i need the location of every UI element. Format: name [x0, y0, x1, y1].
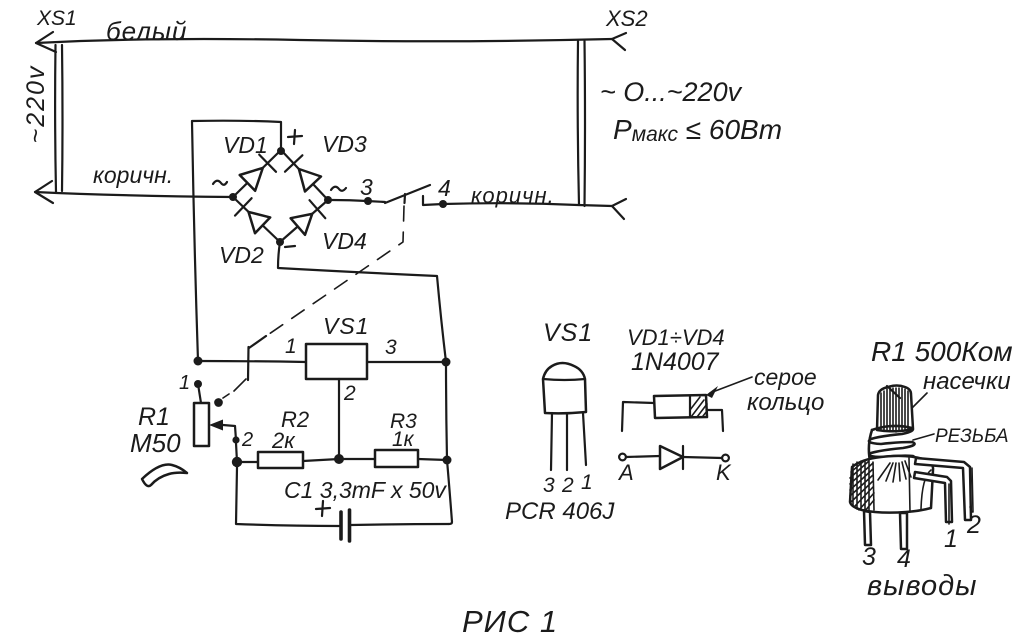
svg-text:VD2: VD2: [219, 242, 264, 268]
svg-text:кольцо: кольцо: [747, 389, 824, 416]
mechanical link end circle at R1: [215, 399, 222, 406]
diode symbol A-K: [619, 454, 626, 461]
leader 1 to leg: [948, 484, 950, 524]
node right junction: [443, 456, 452, 465]
svg-text:R1: R1: [138, 403, 170, 431]
wire right AC to contact 3: [332, 200, 385, 202]
capacitor C1 plate left: [339, 512, 343, 539]
VS1 leg 1: [583, 413, 586, 465]
body front facet fan shading: [878, 461, 911, 482]
R1 leg down left (pin 3): [864, 511, 871, 545]
wire bridge bottom loop (- to right vertical): [278, 242, 446, 362]
svg-text:C1 3,3mF x 50v: C1 3,3mF x 50v: [284, 477, 447, 503]
svg-text:2: 2: [561, 474, 574, 497]
wire VS1 pin 1: [198, 361, 306, 362]
wire junction to R2: [241, 461, 258, 463]
connector XS1 (double vertical bar): [54, 45, 57, 192]
VS1 leg 3: [551, 413, 552, 470]
body facet lines: [873, 458, 931, 512]
wire wiper to junction: [236, 443, 237, 462]
fork right end of white wire: [612, 33, 626, 50]
resistor R3: [375, 450, 418, 467]
wire bridge top loop (+ to left vertical): [192, 121, 281, 361]
arrowhead left end of brown wire: [35, 181, 53, 203]
node R1 wiper pin 2: [232, 436, 239, 443]
svg-text:2: 2: [966, 511, 981, 539]
potentiometer R1 (symbol): [179, 372, 253, 462]
svg-text:1: 1: [581, 471, 593, 494]
R1 leg to right lower (pin 1): [914, 472, 952, 522]
diode VD3 (bridge top-right edge): [281, 150, 328, 200]
mechanical link blade stroke at R1: [249, 336, 266, 348]
svg-text:PCR 406Ј: PCR 406Ј: [505, 498, 615, 525]
wire center junction to R3: [344, 458, 375, 460]
thread left dark edge: [869, 430, 872, 461]
label ~ right AC: [331, 187, 346, 191]
svg-text:3: 3: [543, 474, 555, 497]
node center junction (gate node): [334, 454, 344, 464]
svg-text:3: 3: [862, 543, 876, 571]
R1 leg to right upper (pin 2): [915, 458, 971, 520]
wire right vertical (pin3 node down to bottom): [446, 362, 452, 524]
diode gray ring (hatched band): [690, 396, 707, 417]
leader 2 to leg: [972, 468, 973, 512]
lead right with bend: [707, 410, 723, 431]
wire VS1 pin 3: [367, 361, 446, 363]
resistor body R1: [194, 403, 209, 446]
fork right end of right brown wire: [612, 199, 626, 219]
capacitor C1 plate right: [348, 510, 352, 541]
svg-text:серое: серое: [754, 364, 817, 390]
label ~ left AC: [213, 181, 227, 185]
node VS1 pin1 junction on left vertical: [194, 357, 203, 366]
svg-text:VS1: VS1: [323, 313, 369, 339]
svg-text:2: 2: [241, 429, 253, 451]
shaft slot: [887, 386, 900, 398]
svg-text:коричн.: коричн.: [471, 183, 555, 208]
svg-text:насечки: насечки: [923, 368, 1011, 395]
arrowhead left end of white wire: [36, 32, 56, 52]
svg-text:1: 1: [944, 525, 958, 553]
svg-text:1N4007: 1N4007: [631, 348, 720, 376]
leader 2 to leg: [970, 507, 972, 512]
thyristor VS1 package drawing (TO-92): [505, 319, 615, 525]
leader arrow to gray ring: [710, 377, 752, 393]
wire белый (top mains wire XS1 to XS2): [36, 39, 612, 43]
rotation arc arrow below R1: [142, 465, 187, 487]
wire VS1 pin 2 (gate) down to R2/R3 junction: [338, 379, 340, 459]
svg-text:3: 3: [360, 174, 373, 200]
VS1 package body: [543, 363, 586, 413]
svg-text:РЕЗЬБА: РЕЗЬБА: [935, 426, 1009, 447]
svg-text:M50: M50: [130, 428, 181, 458]
svg-text:4: 4: [438, 175, 451, 201]
diode VD1 (bridge top-left edge): [233, 150, 281, 197]
label + polarity: [288, 130, 302, 144]
node bridge right (~): [324, 196, 332, 204]
lead left with bend: [622, 402, 654, 431]
leader РЕЗЬБА to thread: [913, 434, 934, 440]
wire bottom left (junction down and along bottom to C1): [236, 467, 339, 526]
node contact 3: [364, 197, 372, 205]
wire коричн. (left brown wire to bridge): [35, 192, 233, 197]
thyristor VS1 (box): [306, 344, 367, 379]
svg-text:РИС 1: РИС 1: [462, 604, 558, 639]
wire R3 to right junction: [418, 459, 447, 460]
svg-text:VD4: VD4: [322, 228, 367, 254]
switch SA pivot tick: [403, 194, 406, 203]
VS1 leg 2: [566, 414, 568, 470]
node bridge top (+): [277, 147, 285, 155]
node junction R1/R2/C1: [232, 457, 242, 467]
wire R2 to center junction: [303, 459, 339, 461]
svg-text:2: 2: [343, 382, 356, 405]
svg-text:коричн.: коричн.: [93, 162, 173, 188]
connector XS2 (double vertical bar): [578, 41, 579, 205]
potentiometer R1 physical drawing: [850, 336, 1013, 602]
svg-text:~220v: ~220v: [22, 65, 50, 144]
svg-text:A: A: [617, 460, 634, 485]
svg-text:K: K: [716, 460, 732, 485]
svg-text:VS1: VS1: [543, 319, 593, 347]
diode VD1-VD4 package drawing (1N4007): [617, 325, 824, 485]
svg-text:белый: белый: [106, 16, 187, 46]
switch SA contact 4: [423, 196, 443, 205]
svg-text:1: 1: [179, 372, 190, 394]
node VS1 pin3 junction on right vertical: [442, 358, 451, 367]
mechanical link tick crossing gate wire: [247, 347, 250, 380]
svg-text:2к: 2к: [271, 428, 296, 453]
label - polarity: [285, 246, 295, 247]
svg-text:XS2: XS2: [605, 6, 648, 31]
R1 shaft (knurled cylinder): [877, 386, 913, 432]
svg-text:VD1÷VD4: VD1÷VD4: [627, 325, 725, 350]
svg-text:VD1: VD1: [223, 132, 268, 158]
dashed mechanical link from switch to R1 shaft: [256, 206, 404, 343]
wire коричн. (right brown wire from contact 4 to XS2): [443, 203, 612, 206]
svg-text:~ O...~220v: ~ O...~220v: [600, 77, 743, 107]
diode body rectangle: [654, 395, 707, 418]
R1 threaded bushing: [869, 426, 915, 462]
svg-text:1к: 1к: [392, 428, 415, 451]
shaft knurl hatch: [881, 388, 908, 432]
node contact 4: [439, 200, 447, 208]
svg-text:4: 4: [897, 545, 911, 573]
mechanical link dashes to R1 shaft: [223, 379, 246, 398]
node bridge left (~): [229, 193, 237, 201]
R1 wiper arrow: [209, 420, 223, 431]
leader насечки to shaft: [908, 393, 927, 412]
R1 body (hex housing): [850, 456, 933, 513]
svg-text:VD3: VD3: [322, 131, 367, 157]
body left facet crosshatch: [850, 459, 874, 511]
wire R1 pin1 lead: [198, 384, 201, 403]
diode VD2 (bridge bottom-left edge): [233, 197, 280, 242]
svg-text:3: 3: [385, 336, 397, 359]
svg-text:выводы: выводы: [867, 570, 977, 602]
diode VD4 (bridge bottom-right edge): [280, 200, 328, 242]
wire bottom right (C1 to right corner): [351, 524, 449, 525]
svg-text:XS1: XS1: [36, 7, 77, 30]
resistor R2: [258, 452, 303, 468]
node bridge bottom (-): [276, 238, 284, 246]
svg-text:R1 500Ком: R1 500Ком: [871, 336, 1013, 367]
R1 leg down mid (pin 4): [900, 513, 907, 549]
label + of C1: [316, 501, 330, 516]
node R1 pin 1: [194, 380, 202, 388]
switch SA blade (open): [385, 185, 430, 203]
svg-text:1: 1: [285, 335, 297, 358]
